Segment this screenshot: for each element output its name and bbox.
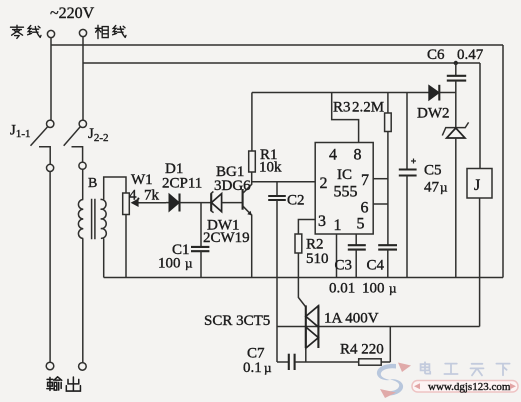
svg-text:C3: C3 [335, 258, 353, 274]
wire secondary top to W1 [104, 177, 126, 200]
wire scr row [277, 326, 480, 328]
svg-text:2.2M: 2.2M [352, 100, 384, 116]
svg-text:4. 7k: 4. 7k [129, 188, 160, 204]
svg-text:J: J [474, 177, 480, 194]
transistor BG1 3DG6 [214, 164, 252, 215]
watermark url band [412, 381, 518, 394]
node J1 lower [47, 164, 54, 171]
zener (below DW2) [442, 93, 468, 278]
svg-text:IC: IC [337, 167, 352, 183]
label 输出 (output) [47, 377, 81, 391]
switch J1-1 [10, 120, 54, 164]
switch J2-2 [64, 120, 109, 162]
svg-text:6: 6 [361, 200, 369, 217]
svg-text:µ: µ [185, 256, 193, 271]
svg-text:J1-1: J1-1 [10, 123, 31, 141]
wire secondary bottom [103, 239, 105, 278]
svg-text:3: 3 [318, 213, 326, 230]
svg-text:1A 400V: 1A 400V [324, 311, 379, 327]
svg-text:C2: C2 [287, 193, 305, 209]
wire vcc line [252, 92, 429, 94]
svg-text:R3: R3 [333, 100, 351, 116]
resistor R3 2.2M [333, 93, 391, 245]
output terminal right [79, 363, 87, 371]
label 相线 (phase) [95, 25, 126, 38]
output terminal left [46, 362, 54, 370]
svg-text:R4 220: R4 220 [340, 342, 384, 358]
svg-text:3DG6: 3DG6 [214, 178, 251, 194]
diode D1 2CP11 [162, 161, 202, 212]
svg-text:~220V: ~220V [50, 5, 95, 22]
wire pin7 [373, 178, 388, 180]
svg-text:µ: µ [264, 360, 272, 375]
resistor R2 510 [295, 234, 329, 267]
wire to transformer primary [82, 170, 84, 200]
svg-text:7: 7 [361, 172, 369, 189]
svg-text:C6: C6 [427, 47, 445, 63]
capacitor C4 100u [362, 245, 397, 296]
wire neutral vertical to switch J1-1 [50, 38, 52, 120]
terminal neutral [47, 30, 54, 37]
wire phase vertical to switch J2-2 [82, 37, 84, 120]
relay J [467, 169, 492, 199]
wire relay bottom [479, 198, 481, 327]
transformer B [78, 176, 106, 239]
wire pin6 [373, 203, 388, 205]
wire C7 to R4 [295, 361, 359, 363]
svg-text:4: 4 [329, 147, 337, 164]
wire SCR bottom [305, 348, 307, 362]
terminal phase [79, 29, 86, 36]
core [92, 199, 95, 240]
zener DW1 2CW19 [203, 192, 250, 247]
svg-text:SCR 3CT5: SCR 3CT5 [204, 313, 270, 329]
svg-text:0.01: 0.01 [329, 281, 355, 297]
svg-text:100: 100 [362, 281, 385, 297]
resistor R1 10k [249, 93, 282, 176]
svg-text:DW2: DW2 [417, 106, 450, 122]
wire R4 corner [389, 327, 391, 363]
diode DW2 [417, 85, 456, 122]
svg-text:2: 2 [320, 175, 328, 192]
capacitor C5 47u [399, 93, 448, 278]
svg-text:B: B [88, 176, 97, 191]
wire pin3 [298, 220, 315, 235]
watermark 电工天下 [421, 362, 510, 375]
SCR 3CT5 [204, 305, 379, 348]
wire relay feed down [479, 63, 481, 169]
svg-text:µ: µ [389, 281, 397, 296]
wire snubber row [277, 361, 289, 363]
wire pin1 down [336, 234, 338, 278]
svg-text:8: 8 [354, 147, 362, 164]
secondary winding [101, 199, 107, 238]
capacitor C2 [268, 182, 304, 362]
wire common bottom rail [104, 277, 503, 279]
primary winding [78, 200, 83, 239]
svg-text:5: 5 [357, 216, 365, 233]
wire BG1 collector up [251, 172, 253, 185]
potentiometer W1 4.7k [123, 172, 166, 215]
wire to output left [49, 172, 51, 363]
capacitor C6 0.47 [427, 47, 484, 93]
label 零线 (neutral) [11, 25, 42, 38]
capacitor C3 0.01 [329, 234, 366, 297]
svg-text:510: 510 [306, 251, 329, 267]
wire phase rail [83, 62, 480, 64]
svg-text:555: 555 [334, 184, 358, 201]
wire pin2 line [252, 181, 316, 183]
wire R2 to SCR gate [298, 253, 305, 307]
svg-text:2CW19: 2CW19 [203, 230, 250, 246]
svg-text:47: 47 [424, 180, 440, 196]
svg-text:C4: C4 [367, 258, 385, 274]
wire top rail [51, 44, 503, 46]
wire BG1 emitter down [251, 215, 253, 278]
IC 555 box [315, 143, 373, 235]
svg-text:W1: W1 [131, 172, 153, 188]
svg-text:J2-2: J2-2 [88, 126, 109, 144]
wire right edge [502, 45, 504, 278]
wire primary bottom to output [82, 239, 84, 363]
svg-text:0.1: 0.1 [243, 360, 262, 376]
watermark logo [377, 363, 411, 399]
capacitor C1 100u [158, 203, 209, 278]
svg-text:0.47: 0.47 [457, 47, 484, 63]
wire W1 bottom [125, 215, 127, 278]
svg-text:10k: 10k [259, 160, 282, 176]
svg-text:2CP11: 2CP11 [162, 176, 202, 192]
capacitor C7 0.1u [243, 346, 295, 377]
svg-text:1: 1 [334, 217, 342, 234]
node J2 lower [79, 162, 86, 169]
svg-text:100: 100 [158, 256, 181, 272]
wire vcc to pins 4,8 [332, 93, 359, 143]
svg-text:µ: µ [440, 180, 448, 195]
svg-text:www.dgjs123.com: www.dgjs123.com [428, 381, 511, 393]
wire D1 to DW1 [180, 202, 212, 204]
svg-text:C5: C5 [424, 163, 442, 179]
resistor R4 220 [340, 342, 390, 366]
wire DW1 to BG1 base [222, 202, 242, 204]
